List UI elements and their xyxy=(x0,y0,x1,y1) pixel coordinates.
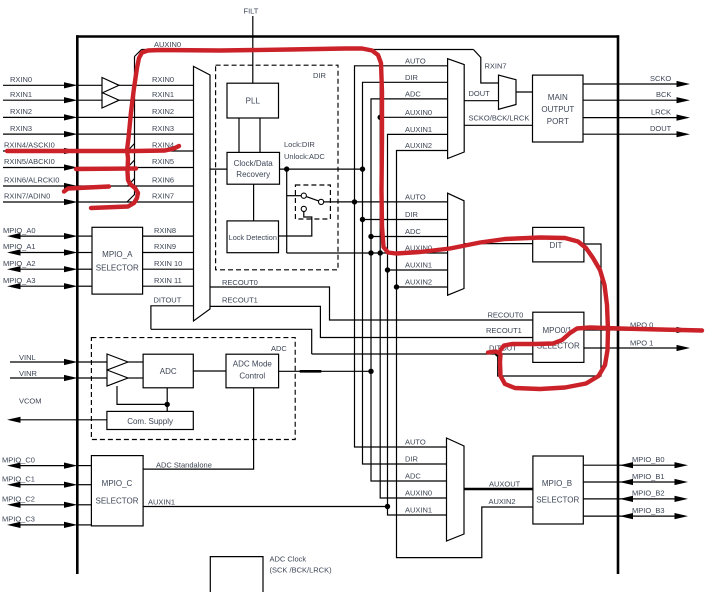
block Lock Detection xyxy=(227,221,279,253)
svg-text:RXIN0: RXIN0 xyxy=(152,75,174,84)
block DIT xyxy=(533,227,584,262)
svg-text:MPIO_B3: MPIO_B3 xyxy=(632,506,665,515)
pin RXIN5/ABCKI0 xyxy=(3,157,78,170)
svg-text:MPIO_C2: MPIO_C2 xyxy=(2,495,35,504)
svg-text:SCKO: SCKO xyxy=(650,74,671,83)
node DITOUT junction xyxy=(495,351,500,356)
svg-text:MPIO_C0: MPIO_C0 xyxy=(2,455,35,464)
block DIR (dashed) xyxy=(216,65,338,270)
svg-text:RECOUT1: RECOUT1 xyxy=(222,296,258,305)
pin MPO 1 xyxy=(584,339,690,352)
wire AUXOUT (thick) xyxy=(464,488,533,490)
svg-text:RXIN8: RXIN8 xyxy=(154,226,176,235)
wire RECOUT1 xyxy=(210,306,533,337)
svg-text:VINR: VINR xyxy=(19,369,38,378)
mux DOUT/RXIN7 selector xyxy=(499,75,517,109)
node AUXIN2/mux2 xyxy=(394,284,399,289)
wire RXIN7 to input selector xyxy=(77,201,193,203)
svg-text:LRCK: LRCK xyxy=(651,107,671,116)
pin MPIO_A2 xyxy=(3,259,78,272)
svg-text:AUXIN2: AUXIN2 xyxy=(489,497,516,506)
pin MPIO_A1 xyxy=(3,242,78,255)
wire AUXIN0 to mux2 xyxy=(287,252,448,254)
svg-text:PLL: PLL xyxy=(246,97,261,106)
block ADC (converter) xyxy=(143,354,193,388)
svg-text:MAIN: MAIN xyxy=(548,93,568,102)
wire DITOUT to MPO selector xyxy=(151,329,312,354)
net DIR (vertical bus) xyxy=(363,82,448,464)
red annotation stroke (RXIN6 row) xyxy=(64,187,109,192)
svg-text:(SCK /BCK/LRCK): (SCK /BCK/LRCK) xyxy=(270,566,333,575)
mux input selector (RXIN0-11/DITOUT) xyxy=(194,66,211,321)
wire RXIN6 to input selector xyxy=(77,185,193,187)
svg-text:RXIN7: RXIN7 xyxy=(485,62,507,71)
block ADC section (dashed) xyxy=(91,338,295,440)
svg-text:AUXIN1: AUXIN1 xyxy=(405,506,432,515)
wire ADC to ADC Mode Control xyxy=(193,370,226,372)
wire CDR to Lock Detection xyxy=(253,184,255,221)
wire RXIN5 to input selector xyxy=(77,167,193,169)
svg-text:ADC Clock: ADC Clock xyxy=(270,555,307,564)
svg-text:RXIN7: RXIN7 xyxy=(152,192,174,201)
svg-text:AUXIN1: AUXIN1 xyxy=(405,261,432,270)
wire MPIO_C3 to selector xyxy=(77,524,91,526)
pin BCK xyxy=(583,90,690,103)
amp VINR xyxy=(107,370,128,386)
svg-text:ADC: ADC xyxy=(405,227,421,236)
pin MPO 0 xyxy=(584,321,690,334)
wire RXIN1 to input selector xyxy=(77,99,193,101)
svg-text:DIR: DIR xyxy=(313,71,327,80)
wire ADC to common supply xyxy=(166,388,168,412)
wire MPIO_A2 to selector xyxy=(77,268,92,270)
svg-text:AUXOUT: AUXOUT xyxy=(489,480,521,489)
pin VINL xyxy=(10,353,78,365)
pin LRCK xyxy=(583,107,690,120)
svg-text:DIR: DIR xyxy=(405,73,419,82)
svg-text:AUXIN2: AUXIN2 xyxy=(405,141,432,150)
wire VINR to amp xyxy=(77,377,107,379)
mux U1 (main output source select) xyxy=(448,59,465,159)
svg-text:AUTO: AUTO xyxy=(405,56,426,65)
svg-text:OUTPUT: OUTPUT xyxy=(541,105,574,114)
labels mux3 inputs xyxy=(405,438,432,515)
pin FILT xyxy=(244,7,259,84)
svg-text:VCOM: VCOM xyxy=(19,397,42,406)
red annotation stroke (RXIN4 row) xyxy=(7,146,179,151)
block MPO0/1 SELECTOR xyxy=(533,312,584,362)
labels mux2 inputs xyxy=(405,192,432,286)
switch arm xyxy=(306,197,318,201)
svg-text:RXIN 10: RXIN 10 xyxy=(154,259,182,268)
wire RXIN3 to input selector xyxy=(77,133,193,135)
svg-text:MPIO_B0: MPIO_B0 xyxy=(632,455,665,464)
svg-text:RECOUT1: RECOUT1 xyxy=(486,326,522,335)
svg-text:ADC Standalone: ADC Standalone xyxy=(156,460,212,469)
svg-text:MPIO_C3: MPIO_C3 xyxy=(2,515,35,524)
switch common contact xyxy=(319,199,324,204)
pin RXIN4/ASCKI0 xyxy=(3,141,78,154)
svg-text:PORT: PORT xyxy=(547,117,569,126)
svg-text:RXIN1: RXIN1 xyxy=(152,90,174,99)
wire VINL to amp xyxy=(77,361,107,363)
svg-text:RXIN0: RXIN0 xyxy=(10,75,32,84)
pin MPIO_C0 xyxy=(2,455,78,468)
block MPIO_B SELECTOR xyxy=(533,456,583,524)
wire RXIN2 to input selector xyxy=(77,116,193,118)
labels mux1 inputs xyxy=(405,56,432,150)
node ADC bus feed xyxy=(368,369,373,374)
svg-text:RXIN1: RXIN1 xyxy=(10,90,32,99)
node AUXIN1 feed xyxy=(385,504,390,509)
pin MPIO_C1 xyxy=(2,474,78,487)
node common supply junction xyxy=(165,402,170,407)
switch contact b (ADC) xyxy=(301,206,306,211)
wire Lock Detection to switch contact b xyxy=(279,212,312,237)
svg-text:MPIO_C: MPIO_C xyxy=(102,479,133,488)
svg-text:RXIN5: RXIN5 xyxy=(152,157,174,166)
svg-text:DIR: DIR xyxy=(405,210,419,219)
svg-text:Recovery: Recovery xyxy=(236,170,270,179)
svg-text:AUXIN1: AUXIN1 xyxy=(148,498,175,507)
svg-text:RXIN5/ABCKI0: RXIN5/ABCKI0 xyxy=(4,157,55,166)
wire DITOUT from DIT (loop right/down/left) xyxy=(498,244,601,376)
svg-text:Control: Control xyxy=(239,372,265,381)
wire SCKO/BCK/LRCK from mux1 xyxy=(464,124,532,126)
wire switch common to AUTO net xyxy=(324,201,448,203)
wire DOUT selector to MAIN OUTPUT PORT xyxy=(516,91,533,93)
pin RXIN3 xyxy=(3,124,78,137)
pin DOUT xyxy=(583,124,690,137)
svg-text:SELECTOR: SELECTOR xyxy=(96,497,139,506)
svg-text:RECOUT0: RECOUT0 xyxy=(488,311,524,320)
svg-text:AUXIN0: AUXIN0 xyxy=(154,40,181,49)
wire input selector to CDR xyxy=(210,168,227,170)
pin MPIO_A0 xyxy=(3,226,78,239)
block Com. Supply xyxy=(107,411,193,429)
wire RXIN11 xyxy=(143,285,194,287)
wire AUXIN1 to mux2 xyxy=(388,269,448,271)
pin VCOM xyxy=(7,397,107,423)
svg-text:AUXIN1: AUXIN1 xyxy=(405,125,432,134)
pin RXIN6/ALRCKI0 xyxy=(3,176,78,189)
net AUXIN1 (vertical bus) xyxy=(388,134,448,515)
wire amp bias to common supply xyxy=(117,386,167,404)
svg-text:SCKO/BCK/LRCK: SCKO/BCK/LRCK xyxy=(469,114,530,123)
amp VINL xyxy=(107,354,128,370)
block Clock/Data Recovery xyxy=(227,152,280,184)
svg-text:DITOUT: DITOUT xyxy=(154,296,182,305)
net ADC (vertical bus) xyxy=(371,99,448,481)
wire MPIO_C2 to selector xyxy=(77,504,91,506)
svg-text:RXIN7/ADIN0: RXIN7/ADIN0 xyxy=(4,192,50,201)
switch contact a (DIR) xyxy=(301,193,306,198)
node ADC/AUXIN0 row xyxy=(368,250,373,255)
block MAIN OUTPUT PORT xyxy=(533,75,584,142)
svg-text:Clock/Data: Clock/Data xyxy=(234,159,274,168)
svg-text:DIT: DIT xyxy=(550,241,563,250)
svg-text:AUTO: AUTO xyxy=(405,438,426,447)
pin MPIO_C3 xyxy=(2,515,78,528)
node DIR/mux2 xyxy=(360,217,365,222)
buffer RXIN0 xyxy=(102,78,119,94)
wire RXIN0 to input selector xyxy=(77,84,193,86)
pin MPIO_C2 xyxy=(2,495,78,508)
svg-text:ADC Mode: ADC Mode xyxy=(233,360,273,369)
wire AUXIN2 to mux2 xyxy=(397,286,448,288)
wire DITOUT loopback (left) xyxy=(151,306,194,330)
svg-text:RXIN6: RXIN6 xyxy=(152,176,174,185)
wire MPIO_C1 to selector xyxy=(77,484,91,486)
svg-text:Lock Detection: Lock Detection xyxy=(229,233,277,242)
node ADC/mux2 xyxy=(368,234,373,239)
svg-text:AUXIN0: AUXIN0 xyxy=(405,108,432,117)
wire AUXIN1 from MPIO_C xyxy=(143,506,387,508)
svg-text:DOUT: DOUT xyxy=(650,124,672,133)
svg-text:ADC: ADC xyxy=(271,344,287,353)
svg-text:Unlock:ADC: Unlock:ADC xyxy=(284,152,325,161)
pin MPIO_B3 xyxy=(583,506,688,519)
buffer RXIN1 xyxy=(102,93,119,109)
switch box (dashed) xyxy=(295,185,330,219)
wire DOUT from mux1 xyxy=(464,100,498,102)
svg-text:SELECTOR: SELECTOR xyxy=(536,496,579,505)
node DIR bus feed xyxy=(360,166,365,171)
svg-text:Com. Supply: Com. Supply xyxy=(127,417,173,426)
wire MPIO_C0 to selector xyxy=(77,465,91,467)
svg-text:ADC: ADC xyxy=(405,89,421,98)
wire ADC Mode Control output (ADC net feed) xyxy=(279,370,371,372)
net AUXIN2 (vertical bus + route to MPIO_B) xyxy=(397,151,533,558)
mux U2 (DIT source select) xyxy=(448,193,464,295)
wire AUXIN0 top run xyxy=(142,49,474,51)
svg-text:ADC: ADC xyxy=(405,472,421,481)
block MPIO_A SELECTOR xyxy=(92,227,143,294)
pin MPIO_A3 xyxy=(3,276,78,289)
svg-text:RXIN 11: RXIN 11 xyxy=(154,276,182,285)
pin VINR xyxy=(10,369,78,381)
wire ADC Standalone xyxy=(143,388,254,469)
svg-text:FILT: FILT xyxy=(244,7,259,16)
net AUTO (vertical bus) xyxy=(355,66,448,447)
svg-text:RXIN9: RXIN9 xyxy=(154,242,176,251)
svg-text:AUXIN0: AUXIN0 xyxy=(405,489,432,498)
wire MPIO_A3 to selector xyxy=(77,285,92,287)
block MPIO_C SELECTOR xyxy=(91,456,143,526)
wire RECOUT0 xyxy=(210,287,533,320)
svg-text:DIR: DIR xyxy=(405,455,419,464)
wire ADC to mux2 xyxy=(371,236,448,238)
wire CDR output down to switch xyxy=(286,169,288,253)
svg-text:RXIN4/ASCKI0: RXIN4/ASCKI0 xyxy=(4,141,55,150)
mux U3 (AUXOUT source select) xyxy=(447,438,465,541)
wire DIR to mux2 xyxy=(363,219,448,221)
svg-text:RXIN3: RXIN3 xyxy=(10,124,32,133)
block ADC Clock (partial) xyxy=(210,555,332,592)
node AUTO bus feed xyxy=(352,199,357,204)
wire PLL to Clock/Data Recovery (pair) xyxy=(239,118,260,152)
svg-text:MPIO_A: MPIO_A xyxy=(102,250,133,259)
wire MPIO_A1 to selector xyxy=(77,252,92,254)
wire mux2 to DIT xyxy=(464,243,533,245)
wire RXIN10 xyxy=(143,268,194,270)
svg-text:MPIO_B2: MPIO_B2 xyxy=(632,489,665,498)
node AUXIN1/mux2 xyxy=(385,267,390,272)
svg-text:ADC: ADC xyxy=(160,367,177,376)
pin MPIO_B0 xyxy=(583,455,688,468)
pin MPIO_B2 xyxy=(583,489,688,502)
pin RXIN7/ADIN0 xyxy=(3,192,78,205)
svg-text:RXIN2: RXIN2 xyxy=(152,107,174,116)
svg-text:AUTO: AUTO xyxy=(405,192,426,201)
pin RXIN2 xyxy=(3,107,78,120)
wire amps to ADC xyxy=(128,362,143,378)
wire CDR recovered output (DIR net feed) xyxy=(280,168,363,170)
pin RXIN1 xyxy=(3,90,78,103)
svg-text:SELECTOR: SELECTOR xyxy=(96,264,139,273)
red annotation main path xyxy=(91,49,608,390)
svg-text:MPO 1: MPO 1 xyxy=(630,339,653,348)
svg-text:VINL: VINL xyxy=(19,353,36,362)
net AUXIN0 riser from RXIN4-7 rows xyxy=(127,50,142,203)
node AUXIN0/mux2 xyxy=(378,250,383,255)
block PLL xyxy=(227,83,279,118)
svg-text:RXIN2: RXIN2 xyxy=(10,107,32,116)
wire MPIO_A0 to selector xyxy=(77,235,92,237)
svg-text:RXIN3: RXIN3 xyxy=(152,124,174,133)
wire RXIN9 xyxy=(143,252,194,254)
svg-text:BCK: BCK xyxy=(656,90,671,99)
svg-text:MPIO_B: MPIO_B xyxy=(542,479,572,488)
svg-text:Lock:DIR: Lock:DIR xyxy=(284,140,315,149)
svg-text:RXIN6/ALRCKI0: RXIN6/ALRCKI0 xyxy=(4,176,59,185)
wire switch input stub xyxy=(287,195,302,197)
wire RXIN7 bypass drop to DOUT selector xyxy=(473,50,498,84)
wire RXIN4 to input selector xyxy=(77,150,193,152)
node AUXIN0/mux1 xyxy=(378,115,383,120)
svg-text:MPIO_B1: MPIO_B1 xyxy=(632,472,665,481)
node CDR output junction xyxy=(284,166,289,171)
svg-text:AUXIN2: AUXIN2 xyxy=(405,278,432,287)
red annotation stroke (RXIN5 row) xyxy=(76,166,136,171)
red annotation exit to MPO 0 xyxy=(501,328,703,351)
chip outline (top/left/right borders) xyxy=(76,35,619,574)
svg-text:RECOUT0: RECOUT0 xyxy=(222,278,258,287)
pin MPIO_B1 xyxy=(583,472,688,485)
net AUXIN0 (vertical bus) xyxy=(373,50,448,499)
svg-text:MPIO_C1: MPIO_C1 xyxy=(2,474,35,483)
svg-text:DOUT: DOUT xyxy=(469,89,491,98)
block ADC Mode Control xyxy=(226,354,279,388)
pin RXIN0 xyxy=(3,75,78,88)
wire RXIN8 xyxy=(143,235,194,237)
pin SCKO xyxy=(583,74,690,87)
